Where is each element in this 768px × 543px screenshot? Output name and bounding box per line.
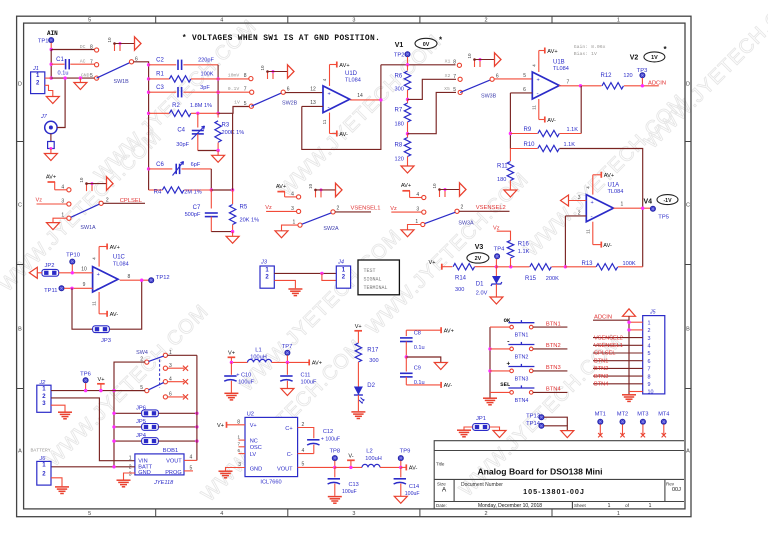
node junction R6-R7: [406, 98, 409, 101]
capacitor C2: [149, 64, 177, 66]
svg-text:6pF: 6pF: [191, 162, 201, 168]
trimmer capacitor C6: [149, 168, 173, 170]
svg-text:R4: R4: [154, 190, 162, 196]
svg-text:J1: J1: [32, 66, 39, 72]
wire JP1 left ground: [464, 427, 473, 430]
pushbutton BTN3: [490, 370, 510, 372]
svg-text:6: 6: [523, 87, 526, 93]
wire JP3 to TP12 node: [110, 280, 142, 329]
wire JP1 right ground: [489, 427, 499, 431]
wire SW3A pin1 to ground: [408, 225, 421, 230]
svg-text:AV+: AV+: [276, 184, 286, 190]
svg-text:AV-: AV-: [339, 132, 348, 138]
svg-text:2: 2: [129, 465, 132, 471]
node junction U1B output: [579, 84, 582, 87]
node junction U1A output: [641, 207, 644, 210]
svg-text:Vz: Vz: [390, 206, 397, 212]
svg-text:3: 3: [416, 207, 419, 213]
svg-text:-: -: [537, 90, 539, 97]
svg-text:7: 7: [244, 86, 247, 92]
svg-text:100uF: 100uF: [301, 380, 317, 386]
svg-text:BTN2: BTN2: [515, 355, 529, 361]
svg-text:SW1B: SW1B: [114, 79, 130, 85]
ground D2: [351, 411, 365, 413]
resistor R6: [407, 65, 409, 71]
pin 4 BOB1 VOUT: [184, 459, 197, 461]
svg-text:5: 5: [88, 511, 91, 517]
svg-text:TP1: TP1: [38, 38, 49, 44]
switch SW4 link dashed: [159, 360, 161, 388]
svg-text:DC: DC: [80, 44, 86, 50]
svg-text:7: 7: [90, 59, 93, 65]
node junction TP6: [84, 389, 87, 392]
wire BOB1 GND to ground: [124, 473, 135, 480]
svg-text:C: C: [686, 203, 690, 209]
wire SW4 pin5 row: [114, 390, 145, 392]
pushbutton BTN4: [490, 391, 510, 393]
wire U1D output: [350, 99, 381, 101]
svg-text:5: 5: [648, 351, 651, 357]
svg-text:TL084: TL084: [345, 78, 361, 84]
U1C power AV+: [98, 247, 100, 267]
node junction V-: [349, 466, 352, 469]
wire AIN bus: [50, 50, 52, 79]
svg-text:MT2: MT2: [617, 411, 628, 417]
pin 6 SW1B: [129, 60, 133, 64]
svg-text:300: 300: [395, 86, 404, 92]
resistor R11: [509, 149, 511, 162]
node junction U1D output: [379, 98, 382, 101]
resistor R4: [149, 189, 163, 191]
wire X2 branch: [408, 79, 457, 99]
svg-text:Rev: Rev: [666, 481, 675, 486]
node junction R16: [509, 265, 512, 268]
ground C13: [328, 496, 342, 498]
switch SW2B blade: [251, 92, 283, 106]
svg-text:180: 180: [497, 177, 506, 183]
test point TP12: [149, 278, 154, 283]
node junction TP7: [286, 361, 289, 364]
inductor L2: [362, 464, 380, 467]
svg-text:PROG: PROG: [165, 470, 181, 476]
svg-text:ADCIN: ADCIN: [648, 80, 666, 86]
no-connect SW4 pin3: [167, 367, 184, 369]
feedback wire R9 to output: [580, 86, 582, 134]
wire C6 right down: [210, 169, 212, 190]
svg-text:C-: C-: [287, 452, 293, 458]
wire U1B inverting bus: [509, 93, 511, 149]
svg-text:1: 1: [649, 503, 652, 509]
resistor R10: [510, 148, 537, 150]
wire SW2B to U1D pin12: [285, 92, 323, 94]
wire 1V bus down: [232, 107, 234, 114]
svg-text:X1: X1: [445, 58, 451, 64]
U1D power AV+: [329, 65, 331, 86]
svg-text:R7: R7: [395, 107, 403, 113]
svg-text:U1C: U1C: [113, 255, 126, 261]
svg-text:V3: V3: [475, 244, 484, 251]
resistor R5: [232, 190, 234, 204]
resistor R13: [565, 266, 596, 268]
svg-text:ICL7660: ICL7660: [260, 479, 281, 485]
ground C11: [281, 389, 294, 396]
capacitor C11: [286, 362, 288, 374]
svg-text:TL084: TL084: [608, 189, 624, 195]
svg-text:3pF: 3pF: [200, 85, 210, 91]
svg-text:-: -: [328, 104, 330, 111]
ground BOB1: [117, 479, 131, 481]
svg-text:AV+: AV+: [312, 361, 322, 367]
jumper JP3: [93, 326, 110, 333]
ground J2: [58, 411, 72, 413]
wire U1C pin9: [64, 287, 93, 289]
zener diode D1: [495, 267, 497, 276]
node junction R2-C4: [196, 112, 199, 115]
svg-text:R13: R13: [582, 261, 594, 267]
capacitor C10: [230, 362, 232, 374]
svg-text:4: 4: [220, 511, 223, 517]
svg-text:0.1V: 0.1V: [228, 86, 240, 92]
svg-text:C6: C6: [156, 162, 164, 168]
svg-text:3: 3: [578, 195, 581, 201]
net VSENSEL1 to J5 pin4: [593, 344, 643, 346]
capacitor C8: [406, 329, 440, 331]
svg-text:1: 1: [648, 320, 651, 326]
svg-text:VSENSEL1: VSENSEL1: [594, 343, 623, 349]
svg-text:1: 1: [129, 456, 132, 462]
U1A power AV+: [592, 175, 594, 195]
svg-text:JP2: JP2: [45, 263, 55, 269]
svg-text:10: 10: [308, 183, 313, 189]
svg-text:BTN1: BTN1: [546, 321, 561, 327]
svg-text:12: 12: [310, 86, 316, 92]
svg-text:4: 4: [220, 18, 223, 24]
svg-text:V+: V+: [217, 423, 224, 429]
svg-text:5: 5: [523, 73, 526, 79]
svg-text:8: 8: [90, 45, 93, 51]
capacitor C13: [334, 467, 336, 477]
svg-text:00J: 00J: [672, 487, 681, 493]
svg-text:5: 5: [244, 101, 247, 107]
ground J5: [622, 394, 636, 396]
ground SW1A: [47, 223, 60, 230]
svg-text:4: 4: [302, 448, 305, 454]
svg-text:10: 10: [79, 177, 84, 183]
svg-text:10: 10: [260, 65, 265, 71]
svg-text:2: 2: [578, 210, 581, 216]
svg-text:AV+: AV+: [547, 49, 557, 55]
svg-text:V+: V+: [429, 260, 436, 266]
svg-text:3: 3: [648, 336, 651, 342]
svg-text:A: A: [18, 449, 22, 455]
wire BATT row: [51, 466, 135, 468]
wire attenuator left bus: [148, 65, 150, 190]
svg-text:TP9: TP9: [400, 448, 411, 454]
svg-text:1V: 1V: [651, 55, 658, 61]
wire R2 row to 1V tap: [218, 107, 249, 114]
svg-text:100uF: 100uF: [238, 380, 254, 386]
svg-text:11: 11: [585, 229, 590, 234]
wire U2 GND: [226, 468, 246, 471]
svg-text:TP4: TP4: [494, 246, 505, 252]
node junction TP4/D1: [495, 265, 498, 268]
svg-text:C+: C+: [285, 426, 292, 432]
svg-text:CPLSEL: CPLSEL: [120, 198, 143, 204]
resistor R12: [602, 83, 623, 89]
power AV- out: [401, 466, 406, 468]
svg-text:1: 1: [621, 202, 624, 208]
svg-text:2: 2: [648, 328, 651, 334]
svg-text:AV+: AV+: [339, 63, 349, 69]
svg-text:U1A: U1A: [608, 183, 620, 189]
svg-text:200K: 200K: [546, 276, 559, 282]
svg-text:AV-: AV-: [409, 466, 418, 472]
svg-text:2: 2: [484, 18, 487, 24]
wire C4-R3 bottom: [198, 150, 218, 152]
svg-text:10: 10: [81, 267, 87, 273]
svg-text:4: 4: [190, 455, 193, 461]
svg-text:B: B: [686, 327, 690, 333]
svg-text:1.8M 1%: 1.8M 1%: [190, 103, 212, 109]
svg-text:14: 14: [357, 93, 363, 99]
svg-text:X2: X2: [445, 73, 451, 79]
wire to R15: [496, 266, 529, 268]
svg-text:10: 10: [107, 37, 112, 43]
wire SW4 pin1 to right bus: [167, 354, 197, 356]
svg-text:+: +: [97, 272, 100, 278]
svg-text:TERMINAL: TERMINAL: [364, 285, 388, 291]
switch SW3A blade: [425, 212, 455, 223]
svg-text:NC: NC: [250, 438, 258, 444]
pin 1 SW3A: [421, 222, 425, 226]
svg-text:U1B: U1B: [553, 59, 565, 65]
switch SW1B blade: [97, 62, 132, 78]
net BTN3 to J5 pin8: [593, 375, 643, 377]
wire C3 to SW2B pin7: [218, 91, 249, 93]
svg-text:C7: C7: [193, 205, 201, 211]
svg-text:R6: R6: [395, 73, 403, 79]
svg-text:2: 2: [484, 511, 487, 517]
net CPLSEL to J5 pin5: [593, 352, 643, 354]
svg-text:R17: R17: [367, 347, 379, 353]
svg-text:R8: R8: [395, 142, 403, 148]
svg-text:+: +: [537, 77, 540, 83]
svg-text:D: D: [686, 82, 690, 88]
node junction SW4 pin5: [112, 389, 115, 392]
wire J1 pin2 to ground: [45, 85, 53, 96]
switch SW2A blade: [302, 213, 331, 224]
node junction GND row: [50, 76, 53, 79]
svg-text:9: 9: [83, 282, 86, 288]
svg-text:D2: D2: [367, 383, 375, 389]
pin 1 SW1A: [67, 216, 71, 220]
svg-text:8: 8: [648, 374, 651, 380]
inductor L1: [231, 361, 247, 363]
wire right bus upper: [217, 65, 219, 114]
svg-text:3: 3: [291, 206, 294, 212]
svg-text:8: 8: [237, 419, 240, 425]
U1D power AV-: [329, 113, 331, 134]
svg-text:C2: C2: [156, 58, 164, 64]
switch SW3B blade: [460, 79, 492, 92]
wire C9 to AV-: [406, 384, 440, 386]
wire J2 pin3 to ground: [51, 405, 65, 411]
capacitor C9: [405, 357, 407, 372]
svg-text:100uH: 100uH: [365, 456, 381, 462]
pin 6 U2 LV: [239, 453, 246, 455]
wire C7-R5 bottom: [211, 231, 232, 233]
node junction at DC row: [50, 48, 53, 51]
svg-text:AV+: AV+: [401, 183, 411, 189]
svg-text:TP2: TP2: [394, 53, 405, 59]
svg-text:SW2A: SW2A: [323, 226, 339, 232]
svg-text:C13: C13: [349, 482, 359, 488]
ground C8/C9 mid: [434, 363, 447, 370]
wire X1 row: [381, 64, 456, 66]
node junction R13-R15: [564, 265, 567, 268]
svg-text:180: 180: [395, 121, 404, 127]
net ADCIN to J5: [593, 319, 629, 321]
op-amp U1D: [323, 86, 350, 113]
svg-text:V1: V1: [395, 42, 404, 49]
svg-text:TEST: TEST: [364, 268, 376, 274]
pin 10 J5 wire: [629, 391, 643, 393]
node junction TP8: [333, 466, 336, 469]
svg-text:D1: D1: [476, 282, 484, 288]
svg-text:R3: R3: [222, 122, 230, 128]
ground D1: [490, 297, 503, 304]
svg-text:8: 8: [128, 274, 131, 280]
svg-text:2: 2: [461, 205, 464, 211]
svg-text:TP6: TP6: [80, 371, 91, 377]
svg-text:5: 5: [190, 465, 193, 471]
svg-text:TP8: TP8: [329, 448, 340, 454]
svg-text:Title: Title: [436, 462, 445, 467]
wire J1 pin1 to bus: [45, 77, 51, 79]
wire R1 to SW2B pin8: [218, 78, 249, 80]
wire J3 pin1 to J4 pin1: [274, 272, 336, 274]
svg-text:1: 1: [617, 511, 620, 517]
pin 6 SW4: [163, 395, 167, 399]
no-connect SW4 pin6: [167, 396, 184, 398]
svg-text:9: 9: [648, 382, 651, 388]
wire J6 pin2 to ground: [51, 478, 62, 486]
svg-text:10: 10: [432, 183, 437, 189]
ground attenuator: [217, 151, 219, 156]
svg-text:+ C10: + C10: [236, 373, 251, 379]
ground U2: [219, 470, 233, 472]
svg-text:R15: R15: [525, 276, 537, 282]
wire R10 to U1A net: [560, 149, 643, 267]
svg-text:3: 3: [61, 199, 64, 205]
svg-text:J5: J5: [649, 310, 656, 316]
svg-text:R2: R2: [172, 103, 180, 109]
resistor R14: [453, 264, 474, 270]
svg-text:TL084: TL084: [113, 261, 129, 267]
svg-text:TP5: TP5: [658, 214, 669, 220]
svg-text:11: 11: [92, 301, 97, 306]
svg-text:30pF: 30pF: [176, 142, 189, 148]
test signal terminal note box: [358, 260, 399, 295]
svg-text:5: 5: [88, 18, 91, 24]
svg-text:10: 10: [648, 390, 654, 396]
svg-text:2: 2: [302, 422, 305, 428]
resistor R16: [507, 240, 513, 258]
svg-text:4: 4: [416, 192, 419, 198]
resistor R3: [217, 113, 219, 117]
svg-text:8: 8: [244, 73, 247, 79]
input port arrow JP2: [29, 267, 37, 278]
svg-text:Gain: 8.06x: Gain: 8.06x: [574, 44, 606, 50]
no-connect SW4 pin4: [167, 381, 184, 383]
svg-text:0V: 0V: [423, 42, 430, 48]
ground R11: [504, 190, 517, 197]
ground SW3A: [401, 230, 414, 237]
svg-text:7: 7: [453, 74, 456, 80]
svg-text:A: A: [442, 487, 447, 494]
svg-text:AIN: AIN: [47, 30, 58, 37]
pin 5 BOB1 PROG: [184, 470, 193, 472]
J7 shell pad: [48, 142, 55, 149]
svg-text:300: 300: [455, 287, 464, 293]
svg-text:LV: LV: [250, 452, 257, 458]
wire mid to ground: [406, 357, 441, 363]
ground C7/R5: [232, 232, 234, 237]
pin 3 SW4: [163, 366, 167, 370]
svg-text:1.1K: 1.1K: [518, 249, 530, 255]
svg-text:SW3B: SW3B: [481, 94, 497, 100]
node junction J3-J4: [320, 272, 323, 275]
wire U1D feedback loop: [302, 65, 381, 150]
node junction C8-C9: [405, 355, 408, 358]
op-amp U1B: [532, 72, 559, 99]
wire X5 branch: [408, 92, 457, 133]
node junction R7-R8: [406, 132, 409, 135]
svg-text:R9: R9: [524, 127, 532, 133]
svg-text:AC: AC: [80, 59, 86, 65]
wire pin2 to R13/R15 node: [564, 216, 566, 267]
ground J6: [55, 486, 69, 488]
svg-text:VOUT: VOUT: [166, 458, 182, 464]
svg-text:+: +: [591, 200, 594, 206]
svg-text:J4: J4: [337, 260, 344, 266]
pin 2 SW2A / net VSENSEL1: [331, 210, 335, 214]
svg-text:SEL: SEL: [500, 381, 511, 388]
svg-text:AV+: AV+: [444, 329, 454, 335]
svg-text:TP13: TP13: [526, 413, 540, 419]
svg-text:0.1u: 0.1u: [58, 71, 69, 77]
svg-text:100K: 100K: [200, 71, 213, 77]
svg-text:AV+: AV+: [110, 245, 120, 251]
svg-text:GND: GND: [138, 470, 150, 476]
svg-text:Vz: Vz: [493, 225, 500, 231]
svg-text:10: 10: [467, 53, 472, 59]
feedback loop JP3: [72, 288, 93, 329]
wire SW2A pin1 to ground: [282, 225, 299, 231]
wire SW1B to attenuator: [134, 62, 149, 65]
svg-text:C8: C8: [414, 331, 421, 337]
svg-text:TP12: TP12: [156, 275, 170, 281]
pin 1 SW4: [163, 353, 167, 357]
U1B output wire: [559, 85, 602, 87]
resistor R7: [407, 99, 409, 103]
svg-text:R11: R11: [497, 164, 508, 170]
U1B power AV-: [538, 99, 540, 120]
svg-text:SW1A: SW1A: [80, 225, 96, 231]
net BTN4 to J5 pin9: [593, 383, 643, 385]
svg-text:V+: V+: [355, 324, 362, 330]
svg-text:AV-: AV-: [603, 243, 612, 249]
